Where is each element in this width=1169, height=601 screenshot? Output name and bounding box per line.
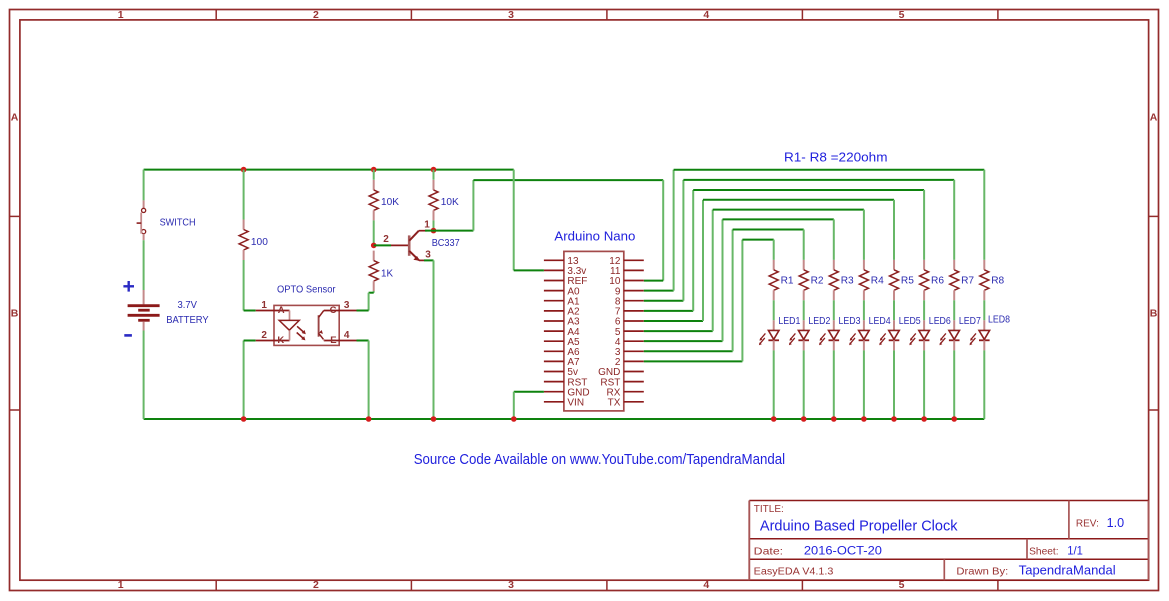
wire emitter to down-wire: [424, 259, 434, 261]
resistor 10K first: [373, 180, 375, 190]
svg-text:1: 1: [424, 220, 430, 231]
switch S1: [143, 200, 145, 208]
svg-text:100: 100: [251, 236, 268, 248]
wire arduino pin 9 to R8: [644, 290, 674, 292]
svg-text:1/1: 1/1: [1067, 544, 1083, 558]
transistor Q1 BC337: [391, 231, 427, 261]
svg-text:TITLE:: TITLE:: [754, 504, 784, 515]
pin A1 (left row 5): [544, 300, 564, 302]
svg-text:B: B: [1150, 307, 1158, 319]
pin 12 (right row 1): [624, 259, 644, 261]
wire arduino pin 4 to R3: [644, 340, 723, 342]
junction base node: [371, 243, 377, 249]
LED1: [773, 320, 775, 330]
svg-text:1: 1: [118, 579, 124, 591]
svg-text:K: K: [277, 335, 284, 346]
wire GND pin to bottom rail: [514, 391, 544, 393]
svg-text:A: A: [11, 111, 19, 123]
wire collector to arduino D10: [473, 179, 663, 181]
svg-text:LED2: LED2: [808, 315, 830, 327]
junction bottom rail / LED4: [861, 416, 867, 422]
svg-text:Sheet:: Sheet:: [1029, 547, 1059, 558]
wire top rail to 3.3v pin: [513, 170, 515, 271]
svg-text:2: 2: [261, 330, 267, 341]
svg-text:10K: 10K: [381, 196, 399, 208]
svg-text:LED8: LED8: [988, 313, 1010, 325]
svg-text:Date:: Date:: [754, 547, 783, 558]
pin 4 (right row 9): [624, 340, 644, 342]
pin 5 (right row 8): [624, 330, 644, 332]
wire opto pin2 to bottom rail: [243, 341, 245, 420]
svg-text:2: 2: [313, 579, 319, 591]
svg-text:LED4: LED4: [869, 315, 891, 327]
wire to opto pin2: [244, 340, 256, 342]
svg-text:2: 2: [313, 9, 319, 21]
wire LED5 to bottom rail: [893, 350, 895, 419]
pin A7 (left row 11): [544, 360, 564, 362]
wire R3 to LED3: [833, 300, 835, 320]
resistor R8 220ohm: [983, 260, 985, 270]
battery BT1 3.7V: [143, 290, 145, 304]
wire collector to riser: [425, 230, 473, 232]
pin VIN (left row 15): [544, 401, 564, 403]
junction bottom rail / LED6: [921, 416, 927, 422]
svg-text:4: 4: [703, 9, 709, 21]
pin GND (right row 12): [624, 371, 644, 373]
resistor 100: [243, 220, 245, 230]
wire R5 to LED5: [893, 300, 895, 320]
svg-text:R6: R6: [931, 275, 944, 287]
wire battery column bottom: [143, 331, 145, 420]
wire bottom rail: [144, 418, 985, 420]
wire jog down to pin3 row: [368, 293, 370, 311]
junction bottom rail / LED2: [801, 416, 807, 422]
wire LED3 to bottom rail: [833, 350, 835, 419]
wire arduino pin 6 to R5: [644, 320, 703, 322]
wire arduino pin 7 to R6: [644, 310, 693, 312]
svg-text:BATTERY: BATTERY: [166, 314, 209, 326]
pin 7 (right row 6): [624, 310, 644, 312]
pin A2 (left row 6): [544, 310, 564, 312]
pin 2 (right row 11): [624, 360, 644, 362]
wire top rail: [144, 169, 514, 171]
battery minus sign: [124, 334, 132, 337]
svg-text:C: C: [330, 305, 337, 316]
svg-text:R4: R4: [871, 275, 884, 287]
wire LED7 to bottom rail: [953, 350, 955, 419]
resistor R7 220ohm: [953, 260, 955, 270]
pin A4 (left row 8): [544, 330, 564, 332]
LED4: [863, 320, 865, 330]
svg-text:R1: R1: [781, 275, 794, 287]
wire switch to battery: [143, 240, 145, 290]
resistor R3 220ohm: [833, 260, 835, 270]
LED5: [893, 320, 895, 330]
wire riser collector: [472, 180, 474, 231]
wire R100 to opto pin1: [243, 260, 245, 311]
wire R6 to LED6: [923, 300, 925, 320]
junction bottom rail / LED7: [951, 416, 957, 422]
LED8: [983, 320, 985, 330]
resistor R5 220ohm: [893, 260, 895, 270]
svg-text:5: 5: [899, 9, 905, 21]
LED7: [953, 320, 955, 330]
pin A0 (left row 4): [544, 290, 564, 292]
wire LED6 to bottom rail: [923, 350, 925, 419]
wire R2 to LED2: [803, 300, 805, 320]
wire 1K to opto pin3 (jog): [373, 291, 375, 293]
pin A5 (left row 9): [544, 340, 564, 342]
wire R8 to LED8: [983, 300, 985, 320]
svg-text:3: 3: [425, 250, 431, 261]
svg-text:3: 3: [508, 579, 514, 591]
pin 3 (right row 10): [624, 350, 644, 352]
svg-text:A: A: [278, 305, 285, 316]
pin RX (right row 14): [624, 391, 644, 393]
svg-text:Drawn By:: Drawn By:: [956, 567, 1008, 578]
svg-text:REV:: REV:: [1076, 518, 1099, 529]
junction top rail / R100: [241, 167, 247, 173]
wire into pin 10 stub: [644, 280, 663, 282]
svg-text:3: 3: [508, 9, 514, 21]
junction bottom rail / emitter: [431, 416, 437, 422]
svg-text:OPTO Sensor: OPTO Sensor: [277, 284, 336, 296]
pin TX (right row 15): [624, 401, 644, 403]
svg-text:R2: R2: [811, 275, 824, 287]
svg-text:1K: 1K: [381, 267, 393, 279]
svg-text:VIN: VIN: [567, 398, 584, 409]
svg-text:TX: TX: [608, 398, 621, 409]
svg-text:Arduino Based Propeller Clock: Arduino Based Propeller Clock: [760, 517, 958, 534]
resistor R4 220ohm: [863, 260, 865, 270]
wire emitter column to bottom rail: [433, 260, 435, 419]
pin RST (right row 13): [624, 381, 644, 383]
LED2: [803, 320, 805, 330]
wire 10K to base junction: [373, 220, 375, 245]
svg-text:R1- R8 =220ohm: R1- R8 =220ohm: [784, 149, 888, 164]
wire LED8 to bottom rail: [983, 350, 985, 419]
svg-text:Source Code Available on www.Y: Source Code Available on www.YouTube.com…: [414, 452, 785, 468]
battery plus sign: [123, 285, 134, 287]
wire arduino pin 8 to R7: [644, 300, 684, 302]
svg-text:1.0: 1.0: [1107, 515, 1125, 530]
pin 9 (right row 4): [624, 290, 644, 292]
wire to opto pin1: [244, 310, 256, 312]
pin GND (left row 14): [544, 391, 564, 393]
junction bottom rail / LED5: [891, 416, 897, 422]
wire to 10K first: [373, 170, 375, 180]
svg-text:R5: R5: [901, 275, 914, 287]
resistor R6 220ohm: [923, 260, 925, 270]
junction bottom rail / LED1: [771, 416, 777, 422]
IC U1 Arduino Nano: [544, 251, 644, 411]
junction bottom rail / opto pin2: [241, 416, 247, 422]
junction bottom rail / opto pin4: [366, 416, 372, 422]
svg-text:4: 4: [344, 330, 350, 341]
svg-text:E: E: [330, 335, 336, 346]
title block: [749, 501, 1148, 581]
svg-text:LED6: LED6: [929, 315, 951, 327]
svg-text:R3: R3: [841, 275, 854, 287]
junction collector node: [431, 228, 437, 234]
wire to opto pin3: [357, 310, 369, 312]
wire arduino pin 5 to R4: [644, 330, 713, 332]
svg-text:A: A: [1150, 111, 1158, 123]
wire 10K to collector junction: [433, 220, 435, 230]
svg-text:R7: R7: [961, 275, 974, 287]
svg-text:LED5: LED5: [899, 315, 921, 327]
pin RST (left row 13): [544, 381, 564, 383]
opto-coupler U2 OPTO Sensor: [256, 305, 357, 346]
pin 11 (right row 2): [624, 269, 644, 271]
junction top rail / 10K R9: [371, 167, 377, 173]
wire LED1 to bottom rail: [773, 350, 775, 419]
pin 3.3v (left row 2): [544, 269, 564, 271]
resistor 10K second: [433, 180, 435, 190]
svg-text:1: 1: [118, 9, 124, 21]
svg-text:SWITCH: SWITCH: [160, 217, 196, 228]
resistor 1K: [373, 251, 375, 261]
resistor R1 220ohm: [773, 260, 775, 270]
pin 6 (right row 7): [624, 320, 644, 322]
svg-text:2016-OCT-20: 2016-OCT-20: [804, 543, 882, 557]
wire to resistor 100: [243, 170, 245, 220]
svg-text:LED7: LED7: [959, 315, 981, 327]
pin 8 (right row 5): [624, 300, 644, 302]
wire drop to pin 10: [662, 180, 664, 281]
LED3: [833, 320, 835, 330]
junction bottom rail / LED3: [831, 416, 837, 422]
pin REF (left row 3): [544, 280, 564, 282]
svg-text:3: 3: [344, 300, 350, 311]
wire arduino pin 2 to R1: [644, 360, 743, 362]
svg-text:Arduino Nano: Arduino Nano: [554, 229, 635, 244]
pin A3 (left row 7): [544, 320, 564, 322]
wire R4 to LED4: [863, 300, 865, 320]
svg-text:5: 5: [899, 579, 905, 591]
svg-text:LED1: LED1: [778, 315, 800, 327]
svg-text:EasyEDA V4.1.3: EasyEDA V4.1.3: [754, 566, 834, 577]
wire base junction to BC337 base: [374, 244, 391, 246]
svg-text:1: 1: [261, 300, 267, 311]
wire to 10K second: [433, 170, 435, 180]
svg-text:R8: R8: [991, 275, 1004, 287]
pin A6 (left row 10): [544, 350, 564, 352]
wire opto pin4 to bottom rail: [357, 340, 369, 342]
svg-text:BC337: BC337: [432, 237, 460, 249]
junction top rail / 10K R10: [431, 167, 437, 173]
pin 13 (left row 1): [544, 259, 564, 261]
LED6: [923, 320, 925, 330]
wire LED2 to bottom rail: [803, 350, 805, 419]
pin 10 (right row 3): [624, 280, 644, 282]
svg-text:2: 2: [383, 234, 389, 245]
wire battery column top: [143, 170, 145, 201]
wire R1 to LED1: [773, 300, 775, 320]
junction bottom rail / GND: [511, 416, 517, 422]
wire R7 to LED7: [953, 300, 955, 320]
svg-text:B: B: [11, 307, 19, 319]
resistor R2 220ohm: [803, 260, 805, 270]
pin 5v (left row 12): [544, 371, 564, 373]
wire LED4 to bottom rail: [863, 350, 865, 419]
svg-text:4: 4: [703, 579, 709, 591]
wire arduino pin 3 to R2: [644, 350, 733, 352]
svg-text:TapendraMandal: TapendraMandal: [1019, 564, 1116, 578]
svg-text:10K: 10K: [441, 196, 459, 208]
svg-text:3.7V: 3.7V: [178, 299, 198, 311]
svg-text:LED3: LED3: [839, 315, 861, 327]
